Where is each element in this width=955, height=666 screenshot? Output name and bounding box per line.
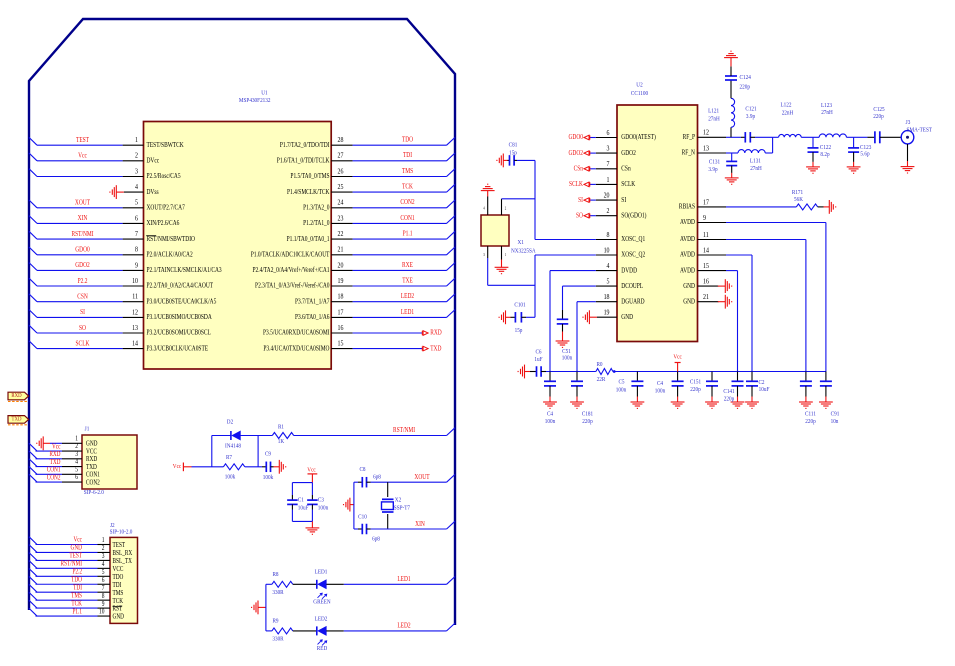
wire net CON2 to bus	[353, 207, 447, 209]
svg-text:21: 21	[703, 293, 709, 301]
svg-text:10: 10	[132, 277, 138, 285]
svg-text:18: 18	[338, 293, 344, 301]
svg-text:TEST/SBWTCK: TEST/SBWTCK	[147, 141, 185, 149]
ground at U1 pin 4 DVss	[124, 191, 144, 193]
svg-text:J1: J1	[85, 426, 90, 433]
svg-text:DVss: DVss	[147, 188, 160, 196]
svg-text:5: 5	[607, 278, 610, 286]
svg-text:C181: C181	[582, 411, 593, 418]
svg-text:C1: C1	[298, 497, 304, 504]
J2 pin 3 BSL_TX	[98, 559, 111, 561]
svg-text:16: 16	[703, 278, 709, 286]
svg-text:100n: 100n	[562, 355, 572, 362]
svg-text:L131: L131	[750, 158, 761, 165]
svg-text:P1.0/TACLK/ADC10CLK/CAOUT: P1.0/TACLK/ADC10CLK/CAOUT	[251, 251, 330, 259]
off-page port flag RXD	[8, 392, 29, 400]
svg-text:IN4148: IN4148	[225, 443, 241, 450]
svg-text:3: 3	[102, 552, 105, 560]
svg-text:7: 7	[607, 161, 610, 169]
svg-text:9: 9	[102, 600, 105, 608]
crystal X1 body	[481, 215, 509, 246]
J2 pin 5 TDO	[98, 575, 111, 577]
wire net P1.1 to bus	[353, 238, 447, 240]
wire net TDI to bus	[353, 160, 447, 162]
capacitor C9	[262, 466, 266, 468]
wire net RXD to bus	[36, 458, 63, 460]
ground at C111	[799, 402, 813, 408]
wire AVDD pin 9 to rail	[726, 222, 826, 224]
svg-text:DGUARD: DGUARD	[621, 298, 645, 306]
svg-text:8.2p: 8.2p	[820, 151, 829, 158]
ground at U2 pin 16	[718, 285, 726, 287]
svg-text:TDI: TDI	[73, 585, 82, 592]
svg-text:4: 4	[483, 206, 485, 210]
svg-text:CSn: CSn	[574, 165, 584, 173]
ground below C1 C3	[311, 521, 313, 528]
svg-text:1: 1	[505, 253, 507, 257]
svg-text:100n: 100n	[616, 387, 626, 394]
ground at LED circuit	[252, 601, 258, 615]
svg-text:3: 3	[483, 253, 485, 257]
U2 pin 13 RF_N	[698, 152, 727, 154]
wire D2 branch	[211, 436, 213, 467]
svg-text:TEST: TEST	[76, 136, 89, 144]
svg-text:SI: SI	[80, 309, 85, 317]
svg-text:AVDD: AVDD	[680, 219, 695, 227]
U1 pin 27 P1.6/TA1_0/TDI/TCLK	[331, 160, 352, 162]
wire net SI to bus	[37, 316, 123, 318]
capacitor C123	[853, 137, 855, 148]
svg-text:P1.5/TA0_0/TMS: P1.5/TA0_0/TMS	[290, 173, 330, 181]
svg-text:CSN: CSN	[77, 293, 88, 301]
svg-text:P2.5/Rosc/CA5: P2.5/Rosc/CA5	[147, 173, 181, 181]
svg-text:TXD: TXD	[12, 416, 22, 423]
J2 pin 6 TDI	[98, 583, 111, 585]
wire bus outline	[29, 19, 455, 625]
svg-text:L123: L123	[821, 103, 832, 110]
svg-text:2: 2	[102, 545, 105, 553]
svg-text:19: 19	[338, 277, 344, 285]
wire C101 to XOSC_Q2	[526, 316, 535, 318]
svg-text:RXD: RXD	[11, 393, 21, 400]
port SCLK	[584, 182, 590, 187]
svg-text:LED2: LED2	[401, 292, 414, 300]
svg-text:3: 3	[135, 168, 138, 176]
svg-text:2: 2	[135, 152, 138, 160]
wire net LED1 to bus	[326, 583, 343, 585]
svg-text:1: 1	[607, 176, 610, 184]
U2 pin 11 AVDD	[698, 239, 727, 241]
svg-text:SMA-TEST: SMA-TEST	[907, 127, 933, 134]
resistor R9	[266, 630, 272, 632]
svg-text:LED2: LED2	[315, 616, 328, 623]
U1 pin 17 P3.6/TA0_1/A6	[331, 316, 352, 318]
svg-text:P3.2/UCB0SOMI/UCB0SCL: P3.2/UCB0SOMI/UCB0SCL	[147, 329, 212, 337]
svg-text:17: 17	[703, 199, 709, 207]
svg-text:220p: 220p	[690, 387, 700, 394]
port SI	[584, 198, 590, 203]
ground at C141	[731, 402, 745, 408]
U1 pin 23 P1.2/TA1_0	[331, 222, 352, 224]
svg-text:100k: 100k	[263, 474, 273, 481]
svg-text:2: 2	[75, 443, 78, 451]
wire XIN to bus	[371, 528, 447, 530]
svg-text:BSL_TX: BSL_TX	[113, 559, 133, 566]
svg-text:R9: R9	[272, 618, 278, 625]
svg-text:CON1: CON1	[400, 214, 414, 222]
svg-text:TXD: TXD	[430, 345, 442, 353]
wire D2 to R1 node	[240, 435, 272, 437]
wire power rail right segment	[613, 371, 826, 373]
wire L131 to node	[765, 152, 772, 154]
svg-text:C121: C121	[745, 106, 756, 113]
svg-text:15: 15	[338, 340, 344, 348]
wire C121 to node	[755, 136, 773, 138]
ground at C5	[631, 402, 645, 408]
ground above C124	[724, 51, 738, 57]
U1 pin 24 P1.3/TA2_0	[331, 207, 352, 209]
svg-text:R171: R171	[792, 189, 803, 196]
wire net CON1 to bus	[36, 473, 63, 475]
svg-text:RST: RST	[113, 606, 123, 613]
wire net Vcc to bus	[36, 544, 98, 546]
ground at C131	[725, 178, 739, 184]
svg-text:RF_P: RF_P	[683, 133, 696, 141]
svg-text:1: 1	[135, 136, 138, 144]
wire net TDO to bus	[353, 144, 447, 146]
wire net SCLK to bus	[37, 348, 123, 350]
svg-text:22: 22	[338, 230, 344, 238]
svg-text:6: 6	[102, 576, 105, 584]
svg-text:CON1: CON1	[86, 472, 100, 479]
svg-text:220p: 220p	[582, 418, 592, 425]
U2 pin 21 GND	[698, 301, 719, 303]
wire net TDO to bus	[36, 583, 98, 585]
ground at C9	[279, 460, 285, 474]
svg-text:SSP-T7: SSP-T7	[394, 505, 410, 512]
wire net TMS to bus	[353, 176, 447, 178]
svg-text:P3.0/UCB0STE/UCA0CLK/A5: P3.0/UCB0STE/UCA0CLK/A5	[147, 298, 217, 306]
svg-text:220p: 220p	[724, 396, 734, 403]
svg-text:P1.4/SMCLK/TCK: P1.4/SMCLK/TCK	[287, 188, 330, 196]
wire net LED2 to bus	[353, 301, 447, 303]
capacitor C81	[503, 159, 507, 161]
wire net TXE to bus	[353, 285, 447, 287]
wire XOSC_Q1	[535, 239, 596, 241]
svg-text:AVDD: AVDD	[680, 267, 695, 275]
ground at C2	[745, 402, 759, 408]
svg-text:9: 9	[703, 214, 706, 222]
IC U2 CC1100 body	[617, 105, 698, 342]
ground at C6	[518, 365, 524, 379]
wire net n.c. to bus	[353, 254, 447, 256]
svg-text:XOSC_Q2: XOSC_Q2	[621, 251, 645, 259]
LED LED2 RED	[293, 630, 317, 632]
svg-text:21: 21	[338, 246, 344, 254]
svg-text:C4: C4	[657, 381, 663, 388]
svg-text:8: 8	[607, 231, 610, 239]
ground at C123	[847, 167, 861, 173]
off-page port flag TXD	[8, 416, 29, 424]
svg-text:P3.4/UCA0TXD/UCA0SIMO: P3.4/UCA0TXD/UCA0SIMO	[263, 345, 330, 353]
wire net LED2 to bus	[326, 630, 343, 632]
svg-text:15p: 15p	[515, 328, 523, 335]
J2 pin 2 BSL_RX	[98, 551, 111, 553]
svg-text:Vcc: Vcc	[307, 467, 316, 474]
capacitor C131	[731, 153, 733, 161]
svg-text:C123: C123	[860, 145, 871, 152]
svg-text:AVDD: AVDD	[680, 236, 695, 244]
wire net TCK to bus	[36, 607, 98, 609]
svg-text:C9: C9	[265, 451, 271, 458]
svg-text:100n: 100n	[545, 418, 555, 425]
svg-text:X2: X2	[395, 497, 401, 504]
svg-text:TCK: TCK	[402, 183, 413, 191]
svg-text:SIP-6-2.0: SIP-6-2.0	[84, 490, 104, 497]
svg-text:TEST: TEST	[69, 553, 82, 560]
svg-text:BSL_RX: BSL_RX	[113, 551, 133, 558]
U1 pin 26 P1.5/TA0_0/TMS	[331, 176, 352, 178]
capacitor C4	[549, 372, 551, 382]
svg-text:P1.1/TA0_0/TA0_1: P1.1/TA0_0/TA0_1	[287, 235, 330, 243]
svg-text:RST/NMI: RST/NMI	[61, 561, 82, 568]
svg-text:Vcc: Vcc	[52, 444, 61, 451]
svg-text:P2.1/TAINCLK/SMCLK/A1/CA3: P2.1/TAINCLK/SMCLK/A1/CA3	[147, 266, 222, 274]
X1 pin 2 top-right	[501, 199, 503, 215]
svg-text:CC1100: CC1100	[631, 91, 648, 98]
J2 pin 8 TCK	[98, 599, 111, 601]
ground at C181	[570, 402, 584, 408]
svg-text:TXE: TXE	[402, 277, 413, 285]
diode D2 1N4148	[231, 431, 241, 440]
ground at C122	[806, 167, 820, 173]
svg-text:4: 4	[607, 262, 610, 270]
port GDO2	[584, 151, 590, 156]
svg-text:GND: GND	[683, 282, 695, 290]
ground at U2 pin 21	[718, 301, 726, 303]
svg-text:P1.3/TA2_0: P1.3/TA2_0	[303, 204, 329, 212]
svg-text:TXD: TXD	[86, 465, 97, 472]
svg-text:P2.0/ACLK/A0/CA2: P2.0/ACLK/A0/CA2	[147, 251, 193, 259]
svg-text:4: 4	[135, 183, 138, 191]
svg-text:GDO2: GDO2	[568, 149, 583, 157]
svg-text:TEST: TEST	[113, 543, 126, 550]
svg-text:P1.1: P1.1	[72, 609, 82, 616]
wire net RST/NMI to bus	[36, 567, 98, 569]
svg-text:2: 2	[607, 207, 610, 215]
svg-text:Vcc: Vcc	[673, 354, 682, 361]
svg-text:1uF: 1uF	[534, 356, 543, 363]
svg-text:R7: R7	[226, 455, 232, 462]
svg-text:5: 5	[102, 568, 105, 576]
resistor R0	[596, 369, 613, 375]
svg-text:GDO0(ATEST): GDO0(ATEST)	[621, 134, 656, 142]
svg-text:17: 17	[338, 309, 344, 317]
svg-text:RST/NMI/SBWTDIO: RST/NMI/SBWTDIO	[147, 235, 196, 243]
resistor R8	[266, 583, 272, 585]
svg-text:330R: 330R	[272, 636, 283, 643]
svg-text:GND: GND	[621, 313, 633, 321]
svg-text:SCLK: SCLK	[621, 180, 635, 188]
svg-text:GND: GND	[71, 545, 83, 552]
wire crystal left vertical	[353, 482, 355, 529]
wire net TEST to bus	[36, 559, 98, 561]
svg-text:56K: 56K	[794, 197, 804, 204]
wire DVDD	[550, 270, 596, 272]
capacitor C141	[737, 372, 739, 382]
svg-text:GDO2: GDO2	[75, 262, 90, 270]
svg-text:CON2: CON2	[400, 199, 414, 207]
ground at R171	[818, 206, 824, 208]
svg-text:100n: 100n	[655, 388, 665, 395]
svg-text:SIP-10-2.0: SIP-10-2.0	[110, 529, 133, 536]
svg-text:24: 24	[338, 199, 344, 207]
J2 pin 4 VCC	[98, 567, 111, 569]
wire net CON2 to bus	[36, 481, 63, 483]
svg-text:6p8: 6p8	[372, 536, 380, 543]
svg-text:6: 6	[75, 474, 78, 482]
wire power rail left segment	[546, 371, 596, 373]
svg-text:P2.4/TA2_0/A4/Vref+/Veref+/CA1: P2.4/TA2_0/A4/Vref+/Veref+/CA1	[253, 266, 330, 274]
inductor L122	[779, 134, 802, 137]
svg-text:3: 3	[75, 450, 78, 458]
capacitor C151	[711, 372, 713, 382]
svg-text:GDO0: GDO0	[568, 134, 583, 142]
svg-text:SI: SI	[578, 196, 583, 204]
wire R7 to C9 node	[245, 466, 262, 468]
ground at C101	[499, 310, 505, 324]
wire net RST/NMI to bus	[37, 238, 123, 240]
wire net XOUT to bus	[37, 207, 123, 209]
capacitor C6	[525, 371, 531, 373]
capacitor C4	[677, 372, 679, 382]
off-page port RXD	[353, 332, 423, 334]
ground at C151	[705, 402, 719, 408]
svg-text:P2.2: P2.2	[72, 569, 82, 576]
svg-text:RST/NMI: RST/NMI	[71, 230, 93, 238]
svg-text:5.6p: 5.6p	[860, 151, 869, 158]
svg-text:MSP430F2132: MSP430F2132	[239, 98, 271, 105]
J1 pin 1 GND	[62, 442, 82, 444]
svg-text:19: 19	[604, 309, 610, 317]
X1 pin 4 top-left to ground	[487, 197, 489, 216]
svg-text:SO: SO	[576, 212, 583, 220]
svg-text:TDO: TDO	[402, 136, 414, 144]
svg-text:AVDD: AVDD	[680, 251, 695, 259]
svg-text:25: 25	[338, 183, 344, 191]
svg-text:DVcc: DVcc	[147, 157, 160, 165]
svg-text:100k: 100k	[225, 474, 235, 481]
svg-text:P1.2/TA1_0: P1.2/TA1_0	[303, 219, 329, 227]
svg-text:TMS: TMS	[402, 167, 414, 175]
wire XOSC_Q2	[535, 254, 596, 256]
svg-text:LED1: LED1	[401, 308, 414, 316]
U1 pin 21 P1.0/TACLK/ADC10CLK/CAOUT	[331, 254, 352, 256]
svg-text:SO(GDO1): SO(GDO1)	[621, 212, 646, 220]
svg-text:220p: 220p	[805, 418, 815, 425]
svg-text:CON2: CON2	[47, 475, 61, 482]
U2 pin 9 AVDD	[698, 222, 727, 224]
svg-text:13: 13	[703, 145, 709, 153]
ground at C4	[543, 402, 557, 408]
svg-text:X1: X1	[518, 240, 524, 247]
J2 pin 10 GND	[98, 615, 111, 617]
port CSn	[584, 167, 590, 172]
svg-text:28: 28	[338, 136, 344, 144]
connector J1 SIP-6-2.0 body	[82, 435, 137, 489]
wire net TEST to bus	[37, 144, 123, 146]
connector J3 SMA-TEST	[901, 131, 914, 144]
capacitor C5	[636, 372, 638, 382]
svg-text:P2.2: P2.2	[78, 277, 88, 285]
U2 pin 12 RF_P	[698, 136, 727, 138]
svg-text:11: 11	[132, 293, 138, 301]
ground at X2 circuit	[344, 498, 350, 512]
svg-text:XIN/P2.6/CA6: XIN/P2.6/CA6	[147, 219, 180, 227]
wire AVDD pin 14 to rail	[726, 254, 752, 256]
wire DGUARD down to rail	[576, 302, 578, 372]
wire DGUARD	[577, 301, 596, 303]
svg-text:TMS: TMS	[71, 593, 82, 600]
wire net XIN to bus	[37, 222, 123, 224]
ground at C51	[556, 341, 570, 347]
ground at C81	[497, 154, 503, 168]
svg-text:P3.3/UCB0CLK/UCA0STE: P3.3/UCB0CLK/UCA0STE	[147, 345, 209, 353]
svg-text:220p: 220p	[740, 84, 750, 91]
svg-text:22nH: 22nH	[782, 110, 794, 117]
U1 pin 20 P2.4/TA2_0/A4/Vref+/Veref+/CA1	[331, 269, 352, 271]
svg-text:LED1: LED1	[315, 569, 328, 576]
svg-text:SO: SO	[79, 324, 86, 332]
svg-text:P1.1: P1.1	[403, 230, 413, 238]
svg-text:XOUT: XOUT	[414, 473, 429, 481]
svg-text:10: 10	[99, 608, 104, 616]
svg-text:C8: C8	[359, 467, 365, 474]
svg-text:1K: 1K	[278, 439, 285, 446]
svg-text:DCOUPL: DCOUPL	[621, 282, 643, 290]
ground at C91	[819, 402, 833, 408]
svg-text:7: 7	[102, 584, 105, 592]
svg-text:J3: J3	[906, 119, 911, 126]
svg-text:VCC: VCC	[113, 567, 124, 574]
svg-text:P2.3/TA1_0/A3/Vref-/Veref-/CA0: P2.3/TA1_0/A3/Vref-/Veref-/CA0	[255, 282, 329, 290]
svg-text:12: 12	[132, 309, 138, 317]
svg-text:RXD: RXD	[49, 452, 61, 459]
svg-text:14: 14	[703, 247, 709, 255]
svg-text:RST/NMI: RST/NMI	[393, 426, 415, 434]
wire RF_P	[726, 136, 741, 138]
svg-text:C125: C125	[873, 107, 884, 114]
J1 pin 3 RXD	[62, 458, 82, 460]
IC U1 MSP430F2132 body	[144, 122, 332, 370]
svg-text:SI: SI	[621, 196, 626, 204]
svg-text:C124: C124	[740, 75, 751, 82]
J2 pin 7 TMS	[98, 591, 111, 593]
ground at C4	[671, 402, 685, 408]
capacitor C10	[354, 528, 358, 530]
wire net GDO2 to bus	[37, 269, 123, 271]
svg-text:P1.7/TA2_0/TDO/TDI: P1.7/TA2_0/TDO/TDI	[280, 141, 330, 149]
svg-text:10n: 10n	[831, 418, 839, 425]
svg-text:27nH: 27nH	[708, 116, 720, 123]
svg-text:16: 16	[338, 324, 344, 332]
svg-text:C111: C111	[805, 411, 816, 418]
capacitor C2	[751, 372, 753, 382]
svg-text:XOUT/P2.7/CA7: XOUT/P2.7/CA7	[147, 204, 185, 212]
capacitor C8	[354, 481, 358, 483]
wire RF_N	[726, 152, 738, 154]
svg-text:DVDD: DVDD	[621, 267, 637, 275]
